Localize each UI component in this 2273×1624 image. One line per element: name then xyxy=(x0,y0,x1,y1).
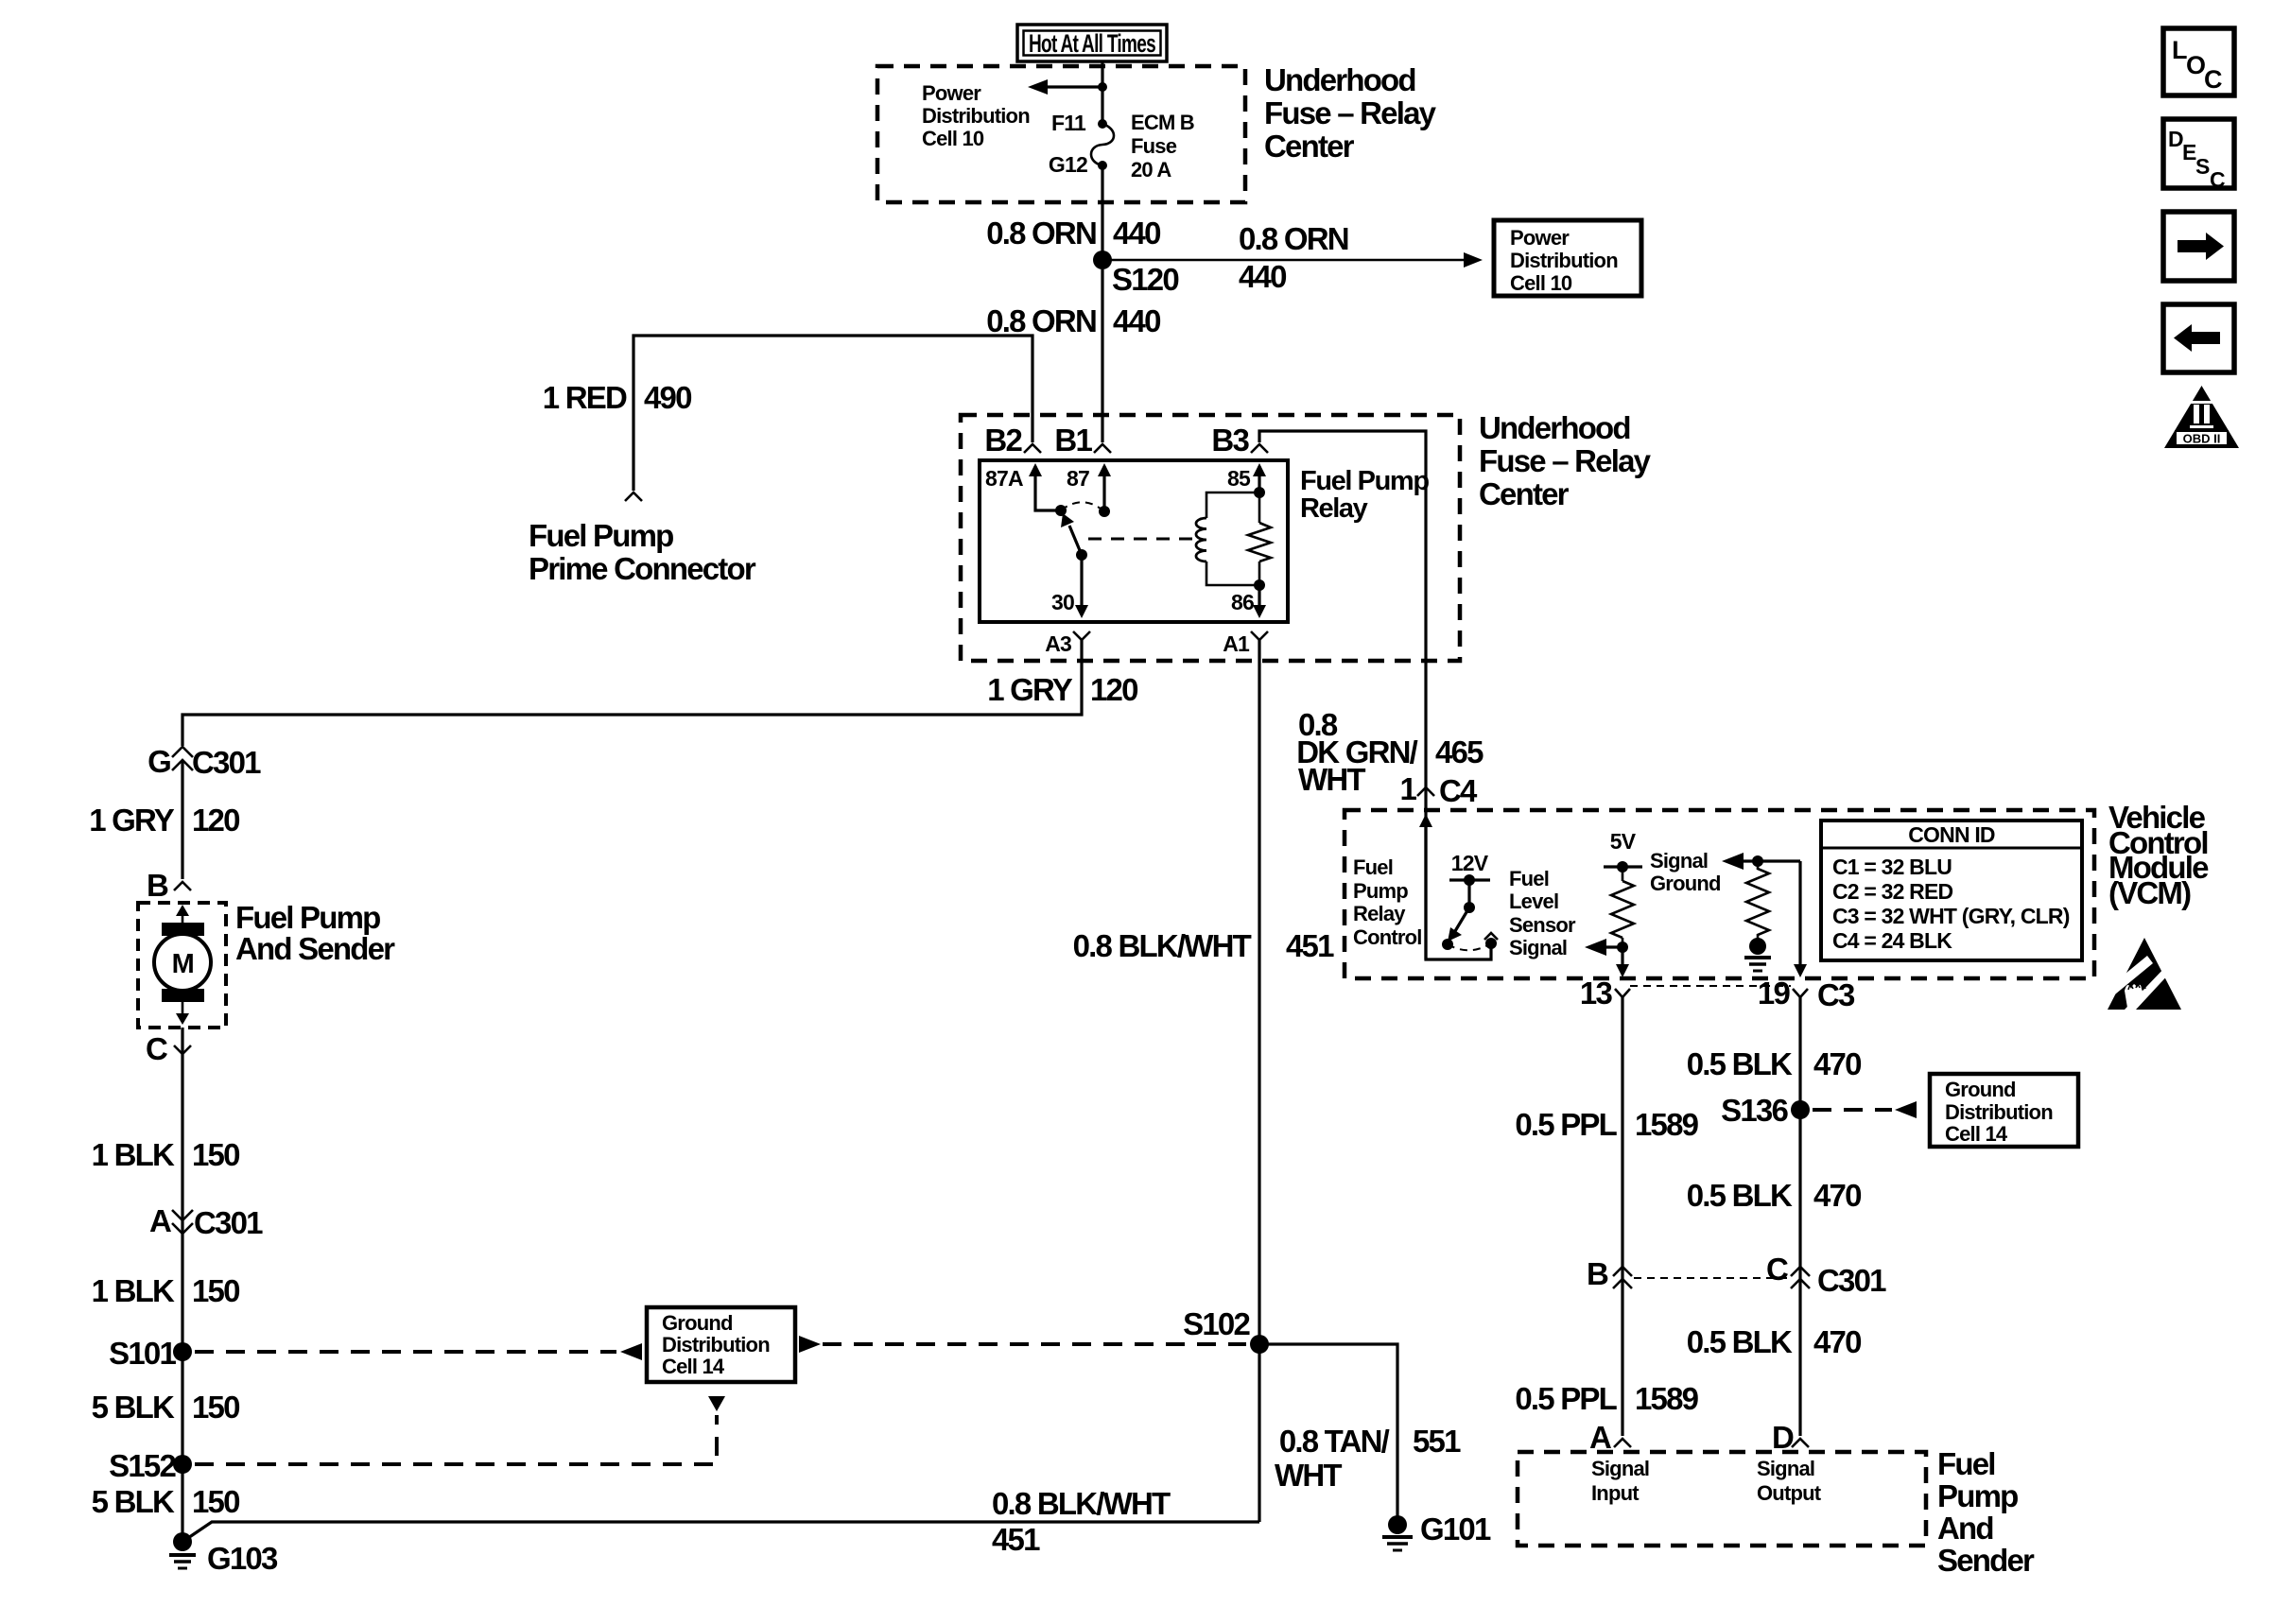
svg-text:D: D xyxy=(1772,1420,1794,1455)
SECTION: top fuse block xyxy=(529,25,1641,586)
svg-text:C: C xyxy=(2204,65,2222,94)
svg-text:Signal: Signal xyxy=(1591,1457,1649,1480)
label 0.8 BLK/WHT 451 (mid) xyxy=(1073,928,1334,963)
svg-text:Sensor: Sensor xyxy=(1509,913,1576,937)
label Fuel Pump And Sender (pump) xyxy=(235,900,395,966)
wire 451 bottom run to G103 xyxy=(185,1522,1259,1540)
node S136 splice xyxy=(1791,1100,1810,1119)
connector pin A1 xyxy=(1251,631,1268,640)
svg-text:150: 150 xyxy=(192,1137,239,1172)
svg-text:Center: Center xyxy=(1479,476,1570,511)
svg-text:Control: Control xyxy=(1353,925,1422,949)
svg-text:1 BLK: 1 BLK xyxy=(92,1137,175,1172)
svg-text:1589: 1589 xyxy=(1635,1107,1699,1142)
label Fuel Pump Relay Control xyxy=(1353,855,1422,949)
relay body box xyxy=(980,460,1288,622)
SECTION: left pump circuit xyxy=(89,744,1246,1576)
svg-text:Power: Power xyxy=(1510,226,1570,250)
connector C301 pin G (double chevron) xyxy=(172,747,193,770)
svg-text:A: A xyxy=(149,1203,171,1238)
label Fuel Pump Relay xyxy=(1300,466,1429,524)
connector pin 19 xyxy=(1793,989,1808,997)
svg-text:M: M xyxy=(172,949,194,979)
svg-text:Distribution: Distribution xyxy=(922,104,1030,128)
label 5 BLK 150 (first) xyxy=(92,1390,239,1425)
svg-text:470: 470 xyxy=(1813,1046,1861,1081)
svg-text:0.8 TAN/: 0.8 TAN/ xyxy=(1279,1424,1390,1459)
svg-text:Ground: Ground xyxy=(1650,872,1721,895)
svg-text:1 GRY: 1 GRY xyxy=(987,672,1073,707)
svg-text:85: 85 xyxy=(1227,466,1251,491)
svg-text:Cell 10: Cell 10 xyxy=(922,127,984,150)
svg-text:30: 30 xyxy=(1051,590,1074,614)
label Vehicle Control Module (VCM) xyxy=(2108,800,2209,910)
svg-text:20 A: 20 A xyxy=(1131,158,1171,181)
svg-text:1: 1 xyxy=(1399,771,1416,806)
label 0.5 PPL 1589 (first) xyxy=(1515,1107,1698,1142)
svg-text:G12: G12 xyxy=(1049,152,1087,177)
svg-text:C301: C301 xyxy=(192,745,261,780)
resistor pull-up 5V xyxy=(1611,867,1634,947)
relay pin 86 leg xyxy=(1253,585,1266,618)
svg-text:C1 = 32 BLU: C1 = 32 BLU xyxy=(1832,855,1952,879)
svg-text:0.5 BLK: 0.5 BLK xyxy=(1687,1046,1793,1081)
label Signal Input xyxy=(1591,1457,1649,1505)
svg-text:E: E xyxy=(2182,140,2196,164)
svg-text:0.5 PPL: 0.5 PPL xyxy=(1515,1107,1617,1142)
svg-text:And Sender: And Sender xyxy=(235,931,395,966)
svg-text:B: B xyxy=(1587,1256,1608,1291)
svg-text:490: 490 xyxy=(644,380,691,415)
wire fuel pump relay control driver xyxy=(1419,814,1491,959)
node junction at power distribution tap xyxy=(1098,82,1107,92)
svg-text:L: L xyxy=(2172,36,2187,64)
svg-text:Cell 14: Cell 14 xyxy=(1945,1122,2008,1146)
svg-text:Cell 14: Cell 14 xyxy=(662,1355,725,1378)
wire S120 down to relay pin B1 xyxy=(1101,269,1103,442)
svg-text:C: C xyxy=(2210,167,2225,192)
SECTION: bottom middle grounds xyxy=(185,1306,1491,1557)
svg-text:Signal: Signal xyxy=(1650,849,1708,872)
motor M fuel pump xyxy=(154,923,211,1002)
node coil/resistor bottom junction xyxy=(1254,579,1265,591)
svg-text:0.5 BLK: 0.5 BLK xyxy=(1687,1324,1793,1359)
svg-text:5V: 5V xyxy=(1610,829,1637,854)
wire pump pin C down to G103 xyxy=(181,1028,183,1536)
svg-text:Fuse – Relay: Fuse – Relay xyxy=(1479,443,1652,478)
connector pin D xyxy=(1792,1439,1809,1447)
svg-text:Fuel: Fuel xyxy=(1937,1446,1995,1481)
relay switch blade common 30 xyxy=(1061,513,1088,618)
Underhood Fuse-Relay Center dashed box (top) xyxy=(877,66,1245,202)
svg-text:Distribution: Distribution xyxy=(1945,1100,2053,1124)
12V switch (relay driver) xyxy=(1442,880,1498,950)
relay resistor (parallel with coil) xyxy=(1248,492,1271,585)
wire A3 to C301-G (1 GRY 120) xyxy=(182,640,1082,746)
svg-text:G101: G101 xyxy=(1420,1512,1491,1546)
svg-text:Ground: Ground xyxy=(1945,1078,2016,1101)
signal ground arrow xyxy=(1722,853,1800,870)
label 0.5 BLK 470 (third) xyxy=(1687,1324,1861,1359)
svg-text:And: And xyxy=(1937,1511,1993,1546)
ground G101 xyxy=(1382,1515,1413,1550)
svg-text:Fuse – Relay: Fuse – Relay xyxy=(1264,95,1437,130)
Fuel Pump And Sender dashed box (bottom) xyxy=(1518,1452,1926,1546)
svg-text:C301: C301 xyxy=(194,1205,263,1240)
svg-text:87A: 87A xyxy=(985,466,1023,491)
dashed link switch to coil xyxy=(1088,538,1193,541)
relay coil xyxy=(1196,492,1259,585)
svg-text:Fuel Pump: Fuel Pump xyxy=(235,900,380,935)
OBD II triangle icon xyxy=(2164,386,2239,448)
ground G103 xyxy=(169,1532,196,1568)
Ground Distribution Cell 14 box (right) xyxy=(1930,1074,2078,1147)
label 0.8 TAN/WHT 551 xyxy=(1275,1424,1461,1493)
svg-text:Fuel: Fuel xyxy=(1509,867,1549,890)
wire pin 13 to pin A (0.5 PPL 1589) xyxy=(1621,997,1623,1436)
svg-text:(VCM): (VCM) xyxy=(2108,875,2191,910)
SECTION: relay xyxy=(182,410,1652,1522)
svg-text:B2: B2 xyxy=(984,423,1022,458)
back arrow icon box xyxy=(2163,304,2234,372)
wire from Hot At All Times down to fuse F11 xyxy=(1101,61,1103,121)
svg-text:B1: B1 xyxy=(1054,423,1092,458)
LOC icon box xyxy=(2163,28,2234,95)
svg-text:Fuel: Fuel xyxy=(1353,855,1393,879)
svg-text:Signal: Signal xyxy=(1757,1457,1814,1480)
connector pin 13 xyxy=(1615,989,1630,997)
label Signal Ground xyxy=(1650,849,1721,895)
relay pin 85 leg xyxy=(1253,463,1266,498)
Power Distribution Cell 10 box (right) xyxy=(1494,220,1641,296)
svg-text:13: 13 xyxy=(1580,976,1613,1011)
svg-text:Input: Input xyxy=(1591,1481,1640,1505)
label 0.5 BLK 470 (first) xyxy=(1687,1046,1861,1081)
connector pin B1 xyxy=(1094,444,1111,453)
svg-text:451: 451 xyxy=(1286,928,1334,963)
DESC icon box xyxy=(2163,119,2234,192)
node S120 splice xyxy=(1093,251,1112,269)
wire branch 87A to fuel pump prime connector xyxy=(633,336,1032,491)
wire signal ground branch down to pin 19 xyxy=(1794,861,1807,977)
svg-text:470: 470 xyxy=(1813,1324,1861,1359)
svg-text:F11: F11 xyxy=(1051,111,1086,135)
svg-text:B: B xyxy=(147,868,168,903)
svg-text:12V: 12V xyxy=(1451,851,1489,875)
svg-text:1 GRY: 1 GRY xyxy=(89,803,175,838)
svg-text:120: 120 xyxy=(1090,672,1137,707)
svg-text:Signal: Signal xyxy=(1509,936,1567,959)
svg-text:Hot At All Times: Hot At All Times xyxy=(1029,29,1155,58)
svg-text:S: S xyxy=(2195,154,2210,179)
label 0.8 ORN 440 (above S120) xyxy=(986,216,1160,251)
connector C301 pin C (double chevron) xyxy=(1791,1267,1810,1288)
internal ground symbol xyxy=(1744,938,1771,971)
node S101 splice xyxy=(173,1342,192,1361)
thin dashed connector line pins 13-19 xyxy=(1630,985,1791,987)
connector pin A3 xyxy=(1073,631,1090,640)
svg-text:1 BLK: 1 BLK xyxy=(92,1273,175,1308)
svg-text:86: 86 xyxy=(1231,590,1254,614)
label 0.8 ORN 440 (below S120) xyxy=(986,303,1160,338)
svg-text:S136: S136 xyxy=(1721,1093,1788,1128)
Fuel Pump And Sender dashed box (pump) xyxy=(138,903,226,1028)
svg-text:1589: 1589 xyxy=(1635,1381,1699,1416)
svg-text:A: A xyxy=(1589,1420,1611,1455)
svg-text:0.8 BLK/WHT: 0.8 BLK/WHT xyxy=(992,1486,1171,1521)
label Underhood Fuse-Relay Center (top) xyxy=(1264,62,1437,164)
svg-text:19: 19 xyxy=(1758,976,1791,1011)
svg-text:S102: S102 xyxy=(1183,1306,1250,1341)
label Fuel Level Sensor Signal xyxy=(1509,867,1576,959)
pump arrow in (up) xyxy=(176,905,189,924)
svg-text:5 BLK: 5 BLK xyxy=(92,1484,175,1519)
svg-text:CONN ID: CONN ID xyxy=(1908,822,1995,847)
svg-text:Distribution: Distribution xyxy=(1510,249,1618,272)
wire C301-G to fuel pump pin B xyxy=(181,760,183,879)
label 1 GRY 120 (under relay) xyxy=(987,672,1137,707)
svg-text:A3: A3 xyxy=(1045,631,1071,656)
svg-text:Prime Connector: Prime Connector xyxy=(529,551,756,586)
svg-text:S101: S101 xyxy=(109,1336,176,1371)
svg-text:C: C xyxy=(1766,1252,1788,1287)
svg-text:Relay: Relay xyxy=(1300,493,1368,524)
wire fuse to S120 xyxy=(1101,165,1103,253)
svg-text:S152: S152 xyxy=(109,1448,176,1483)
svg-text:D: D xyxy=(2168,127,2183,151)
dashed link S136 to Ground Distribution Cell 14 xyxy=(1813,1101,1917,1118)
label 1 BLK 150 (second) xyxy=(92,1273,239,1308)
svg-text:Underhood: Underhood xyxy=(1264,62,1415,97)
svg-text:0.8 ORN: 0.8 ORN xyxy=(1239,221,1348,256)
svg-text:150: 150 xyxy=(192,1484,239,1519)
signal output arrow (fuel level sensor signal) xyxy=(1585,939,1628,956)
svg-text:0.8 BLK/WHT: 0.8 BLK/WHT xyxy=(1073,928,1252,963)
svg-text:C301: C301 xyxy=(1817,1263,1886,1298)
svg-text:87: 87 xyxy=(1067,466,1089,491)
svg-text:Underhood: Underhood xyxy=(1479,410,1630,445)
svg-text:465: 465 xyxy=(1435,734,1484,769)
dashed arc between 87A and 87 contacts xyxy=(1061,502,1104,511)
5V supply tick xyxy=(1604,861,1642,872)
connector pin A xyxy=(1614,1439,1631,1447)
label 0.5 BLK 470 (second) xyxy=(1687,1178,1861,1213)
svg-text:440: 440 xyxy=(1113,216,1160,251)
svg-text:OBD II: OBD II xyxy=(2183,432,2221,446)
connector pin B3 xyxy=(1251,444,1268,453)
svg-text:5 BLK: 5 BLK xyxy=(92,1390,175,1425)
svg-text:120: 120 xyxy=(192,803,239,838)
label ECM B Fuse 20 A xyxy=(1131,111,1194,181)
svg-text:470: 470 xyxy=(1813,1178,1861,1213)
node S102 splice xyxy=(1250,1335,1269,1354)
wire 5V branch down to pin 13 xyxy=(1616,947,1629,977)
label 0.8 DK GRN/WHT 465 xyxy=(1296,707,1484,797)
node S152 splice xyxy=(173,1455,192,1474)
svg-text:WHT: WHT xyxy=(1275,1458,1342,1493)
wire pin 19 to pin D (0.5 BLK 470) xyxy=(1798,997,1801,1436)
pump arrow out (down) xyxy=(176,1002,189,1025)
fuse F11/G12 ECM B 20A xyxy=(1091,119,1114,170)
label 0.5 PPL 1589 (second) xyxy=(1515,1381,1698,1416)
Vehicle Control Module dashed box xyxy=(1345,810,2094,978)
label Power Distribution Cell 10 (inside fuse box) xyxy=(922,81,1030,150)
wire arrow to Power Distribution Cell 10 (left) xyxy=(1028,79,1102,95)
forward arrow icon box xyxy=(2163,212,2234,281)
dashed link S101 to Ground Distribution Cell 14 xyxy=(195,1343,642,1360)
12V supply tick xyxy=(1449,874,1490,886)
wire B3 up and over to C4 xyxy=(1259,431,1426,959)
svg-text:150: 150 xyxy=(192,1273,239,1308)
svg-text:0.5 BLK: 0.5 BLK xyxy=(1687,1178,1793,1213)
svg-text:150: 150 xyxy=(192,1390,239,1425)
SECTION: VCM xyxy=(1345,800,2209,1012)
svg-text:Sender: Sender xyxy=(1937,1543,2035,1578)
connector fuel pump prime xyxy=(625,492,642,501)
label 5 BLK 150 (second) xyxy=(92,1484,239,1519)
svg-text:Pump: Pump xyxy=(1353,879,1408,903)
svg-text:C2 = 32 RED: C2 = 32 RED xyxy=(1832,879,1953,904)
label Signal Output xyxy=(1757,1457,1822,1505)
svg-text:Relay: Relay xyxy=(1353,902,1406,925)
svg-text:C4 = 24 BLK: C4 = 24 BLK xyxy=(1832,928,1952,953)
wire S102 to G101 (0.8 TAN/WHT 551) xyxy=(1259,1344,1397,1519)
connector C301 pin B (double chevron) xyxy=(1613,1267,1632,1288)
thin dashed connector line B-C xyxy=(1634,1277,1789,1279)
SECTION: bottom right xyxy=(1515,997,2078,1578)
svg-text:440: 440 xyxy=(1239,259,1286,294)
svg-text:G: G xyxy=(147,744,170,779)
svg-text:Ground: Ground xyxy=(662,1311,733,1335)
svg-text:Fuel Pump: Fuel Pump xyxy=(1300,466,1429,496)
svg-text:B3: B3 xyxy=(1211,423,1249,458)
connector pin 1 C4 xyxy=(1417,787,1434,796)
relay contact 87A leg xyxy=(1029,463,1067,516)
svg-text:440: 440 xyxy=(1113,303,1160,338)
label 1 GRY 120 (left) xyxy=(89,803,239,838)
svg-text:C4: C4 xyxy=(1439,773,1478,808)
svg-text:A1: A1 xyxy=(1223,631,1250,656)
connector fuel pump pin C xyxy=(174,1045,191,1054)
svg-text:0.8 ORN: 0.8 ORN xyxy=(986,216,1096,251)
svg-text:C3: C3 xyxy=(1817,977,1855,1012)
relay contact 87 leg xyxy=(1098,463,1111,517)
connector C301 pin A (double chevron) xyxy=(172,1210,193,1234)
Underhood Fuse-Relay Center dashed box (relay) xyxy=(961,415,1460,661)
svg-text:S120: S120 xyxy=(1112,262,1178,297)
Hot At All Times flag box xyxy=(1017,25,1167,61)
label 1 BLK 150 (first) xyxy=(92,1137,239,1172)
connector pin B2 xyxy=(1024,444,1041,453)
svg-text:1 RED: 1 RED xyxy=(543,380,627,415)
wire A1 down to S102 (0.8 BLK/WHT 451) xyxy=(1258,640,1260,1522)
svg-text:0.8 ORN: 0.8 ORN xyxy=(986,303,1096,338)
svg-text:Level: Level xyxy=(1509,890,1558,913)
dashed link Ground Distribution box to S102 xyxy=(799,1336,1246,1353)
svg-text:Power: Power xyxy=(922,81,981,105)
svg-text:Cell 10: Cell 10 xyxy=(1510,271,1572,295)
dashed link S152 up to Ground Distribution box xyxy=(195,1396,725,1464)
svg-text:C: C xyxy=(146,1031,167,1066)
label Fuel Pump Prime Connector xyxy=(529,518,756,586)
svg-text:451: 451 xyxy=(992,1522,1040,1557)
svg-text:Output: Output xyxy=(1757,1481,1822,1505)
svg-text:ECM B: ECM B xyxy=(1131,111,1194,134)
svg-text:WHT: WHT xyxy=(1298,762,1365,797)
svg-text:551: 551 xyxy=(1413,1424,1461,1459)
svg-text:0.5 PPL: 0.5 PPL xyxy=(1515,1381,1617,1416)
svg-text:Center: Center xyxy=(1264,129,1355,164)
svg-text:Fuse: Fuse xyxy=(1131,134,1177,158)
label Underhood Fuse-Relay Center (relay) xyxy=(1479,410,1652,511)
svg-text:C3 = 32 WHT (GRY, CLR): C3 = 32 WHT (GRY, CLR) xyxy=(1832,904,2070,928)
svg-text:Distribution: Distribution xyxy=(662,1333,770,1356)
wire S120 to Power Distribution Cell 10 (right) xyxy=(1102,252,1483,268)
ESD sensitivity symbol xyxy=(2105,938,2181,1010)
label 1 RED 490 xyxy=(543,380,691,415)
svg-text:O: O xyxy=(2186,51,2205,79)
connector fuel pump pin B xyxy=(174,882,191,890)
SECTION: right icons xyxy=(2163,28,2239,448)
resistor to internal ground xyxy=(1746,861,1769,939)
label Fuel Pump And Sender (bottom) xyxy=(1937,1446,2035,1578)
CONN ID table xyxy=(1821,821,2082,960)
Ground Distribution Cell 14 box (left) xyxy=(647,1307,795,1382)
svg-text:G103: G103 xyxy=(207,1541,278,1576)
svg-text:Pump: Pump xyxy=(1937,1478,2018,1513)
svg-text:Fuel Pump: Fuel Pump xyxy=(529,518,673,553)
